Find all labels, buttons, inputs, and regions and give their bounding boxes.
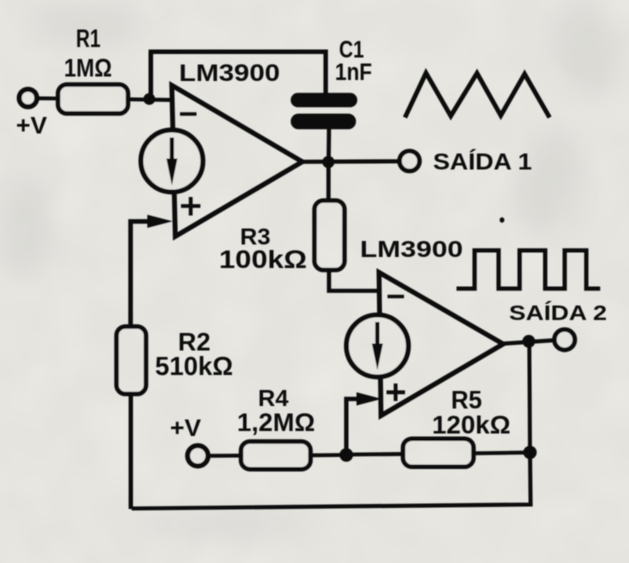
node SAÍDA 2 output terminal (509, 302, 607, 350)
resistor R3 100kΩ (219, 201, 345, 275)
current source symbol inside U1 (141, 130, 203, 192)
wire C1 bottom plate to output node (327, 128, 332, 162)
wire U1 output to SAÍDA 1 (300, 159, 400, 164)
stray ink speck (500, 217, 505, 222)
pin − (inverting input marker) U2 (388, 295, 405, 299)
wire feedback vertical up from junction (149, 52, 154, 99)
pin − (inverting input marker) U1 (180, 112, 197, 116)
resistor R5 120kΩ (403, 387, 511, 467)
wire non-inverting input U2 with arrowhead (346, 392, 382, 455)
node junction dot U1 output / C1 / R3 (322, 156, 334, 168)
pin + (non-inverting input marker) U1 (181, 197, 200, 216)
wire R1 to op-amp U1 inverting input (128, 97, 174, 102)
wire non-inverting input U1 with arrowhead (131, 215, 173, 327)
wire +V terminal to R1 (37, 96, 59, 100)
wire U2 output node down right side (527, 341, 532, 453)
node junction dot R4 / R5 / + input (340, 448, 354, 462)
node +V input terminal (top left) (16, 89, 47, 139)
wire R3 to U2 inverting input (329, 269, 381, 291)
wire R4 to junction (310, 453, 347, 457)
wire U2 output to SAÍDA 2 (501, 340, 555, 344)
resistor R2 510kΩ (117, 327, 234, 395)
node junction dot R1 / feedback (143, 93, 155, 105)
node junction dot U2 output (522, 335, 535, 348)
wire right column down to bottom rail (132, 452, 531, 509)
op-amp U2 LM3900 triangle (360, 236, 503, 416)
wire R5 to right column (473, 451, 530, 456)
node SAÍDA 1 output terminal (400, 148, 533, 175)
capacitor C1 1nF (291, 37, 372, 130)
wire output node down to R3 (326, 162, 330, 202)
wire +V bottom to R4 (208, 454, 243, 458)
op-amp U1 LM3900 triangle (172, 60, 302, 236)
node junction dot R5 right / output column (523, 446, 536, 459)
current source symbol inside U2 (346, 315, 408, 377)
pin + (non-inverting input marker) U2 (387, 384, 406, 402)
triangle waveform symbol (SAÍDA 1) (405, 73, 550, 118)
node +V input terminal (bottom) (170, 415, 208, 466)
resistor R4 1,2MΩ (237, 385, 315, 469)
wire bottom-left up to R2 (129, 393, 133, 509)
square waveform symbol (SAÍDA 2) (457, 250, 601, 288)
resistor R1 1MΩ (58, 25, 128, 114)
wire junction to R5 (346, 452, 404, 457)
wire feedback top horizontal to C1 (149, 52, 326, 94)
